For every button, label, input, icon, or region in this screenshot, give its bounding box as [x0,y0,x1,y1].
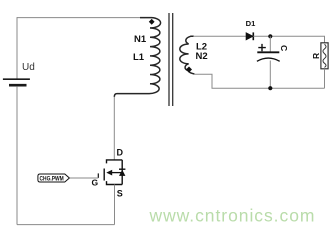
MOSFET Q1 bottom source bar [107,181,123,184]
svg-text:N2: N2 [196,51,208,62]
svg-text:D1: D1 [246,19,256,28]
svg-text:G: G [92,178,99,188]
wire: left vertical from top rail to battery + [16,17,18,79]
MOSFET Q1 gate bar [103,169,105,181]
CHG.PWM net label box [38,174,70,182]
wire: diode to resistor top rail [253,36,324,43]
MOSFET Q1 right vertical (body diode path) [121,160,123,185]
wire: bottom rail to MOSFET source [17,224,115,226]
wire: primary bottom down to MOSFET drain [113,97,115,160]
resistor R zigzag [323,44,326,67]
wire: MOSFET source down to bottom rail [114,185,116,225]
transformer primary winding L1/N1 [114,18,160,97]
svg-text:CHG.PWM: CHG.PWM [40,176,64,182]
svg-text:D: D [117,147,124,157]
MOSFET Q1 top drain bar [107,160,123,164]
MOSFET Q1 body arrow (points left) [106,170,112,176]
transformer core line right [172,13,174,106]
battery Ud: short negative plate [9,84,27,87]
svg-text:R: R [311,53,321,59]
capacitor C plus sign [258,44,266,51]
transformer core line left [168,13,170,106]
svg-text:S: S [117,189,123,199]
wire: secondary top to diode D1 [193,35,246,37]
svg-text:C: C [279,45,289,51]
wire: secondary bottom step to output rail [194,74,325,88]
transformer secondary winding L2/N2 [180,36,195,74]
capacitor C top lead [269,36,271,52]
diode D1 cathode bar [252,32,254,40]
MOSFET Q1 body diode [119,170,125,176]
svg-text:N1: N1 [134,34,147,45]
diode D1 triangle [246,33,253,40]
junction node top at capacitor [268,34,272,38]
resistor R bottom lead [324,69,326,88]
resistor R box [321,43,328,69]
svg-text:L1: L1 [133,52,145,63]
svg-text:Ud: Ud [22,62,35,73]
svg-text:www.cntronics.com: www.cntronics.com [149,206,316,226]
battery Ud: long positive plate [3,78,30,80]
capacitor C curved plate [257,58,280,61]
polarity dot (diamond) primary top [149,19,155,25]
junction node bottom at capacitor [268,86,272,90]
wire: left vertical battery - down to bottom rail [16,87,18,225]
gate lead tick [97,173,99,178]
wire: CHG.PWM to gate [70,177,99,179]
wire: top rail from battery to transformer primary [17,17,145,19]
polarity dot (diamond) secondary bottom [186,67,192,73]
capacitor C bottom lead [269,61,271,89]
capacitor C top plate [257,51,279,53]
